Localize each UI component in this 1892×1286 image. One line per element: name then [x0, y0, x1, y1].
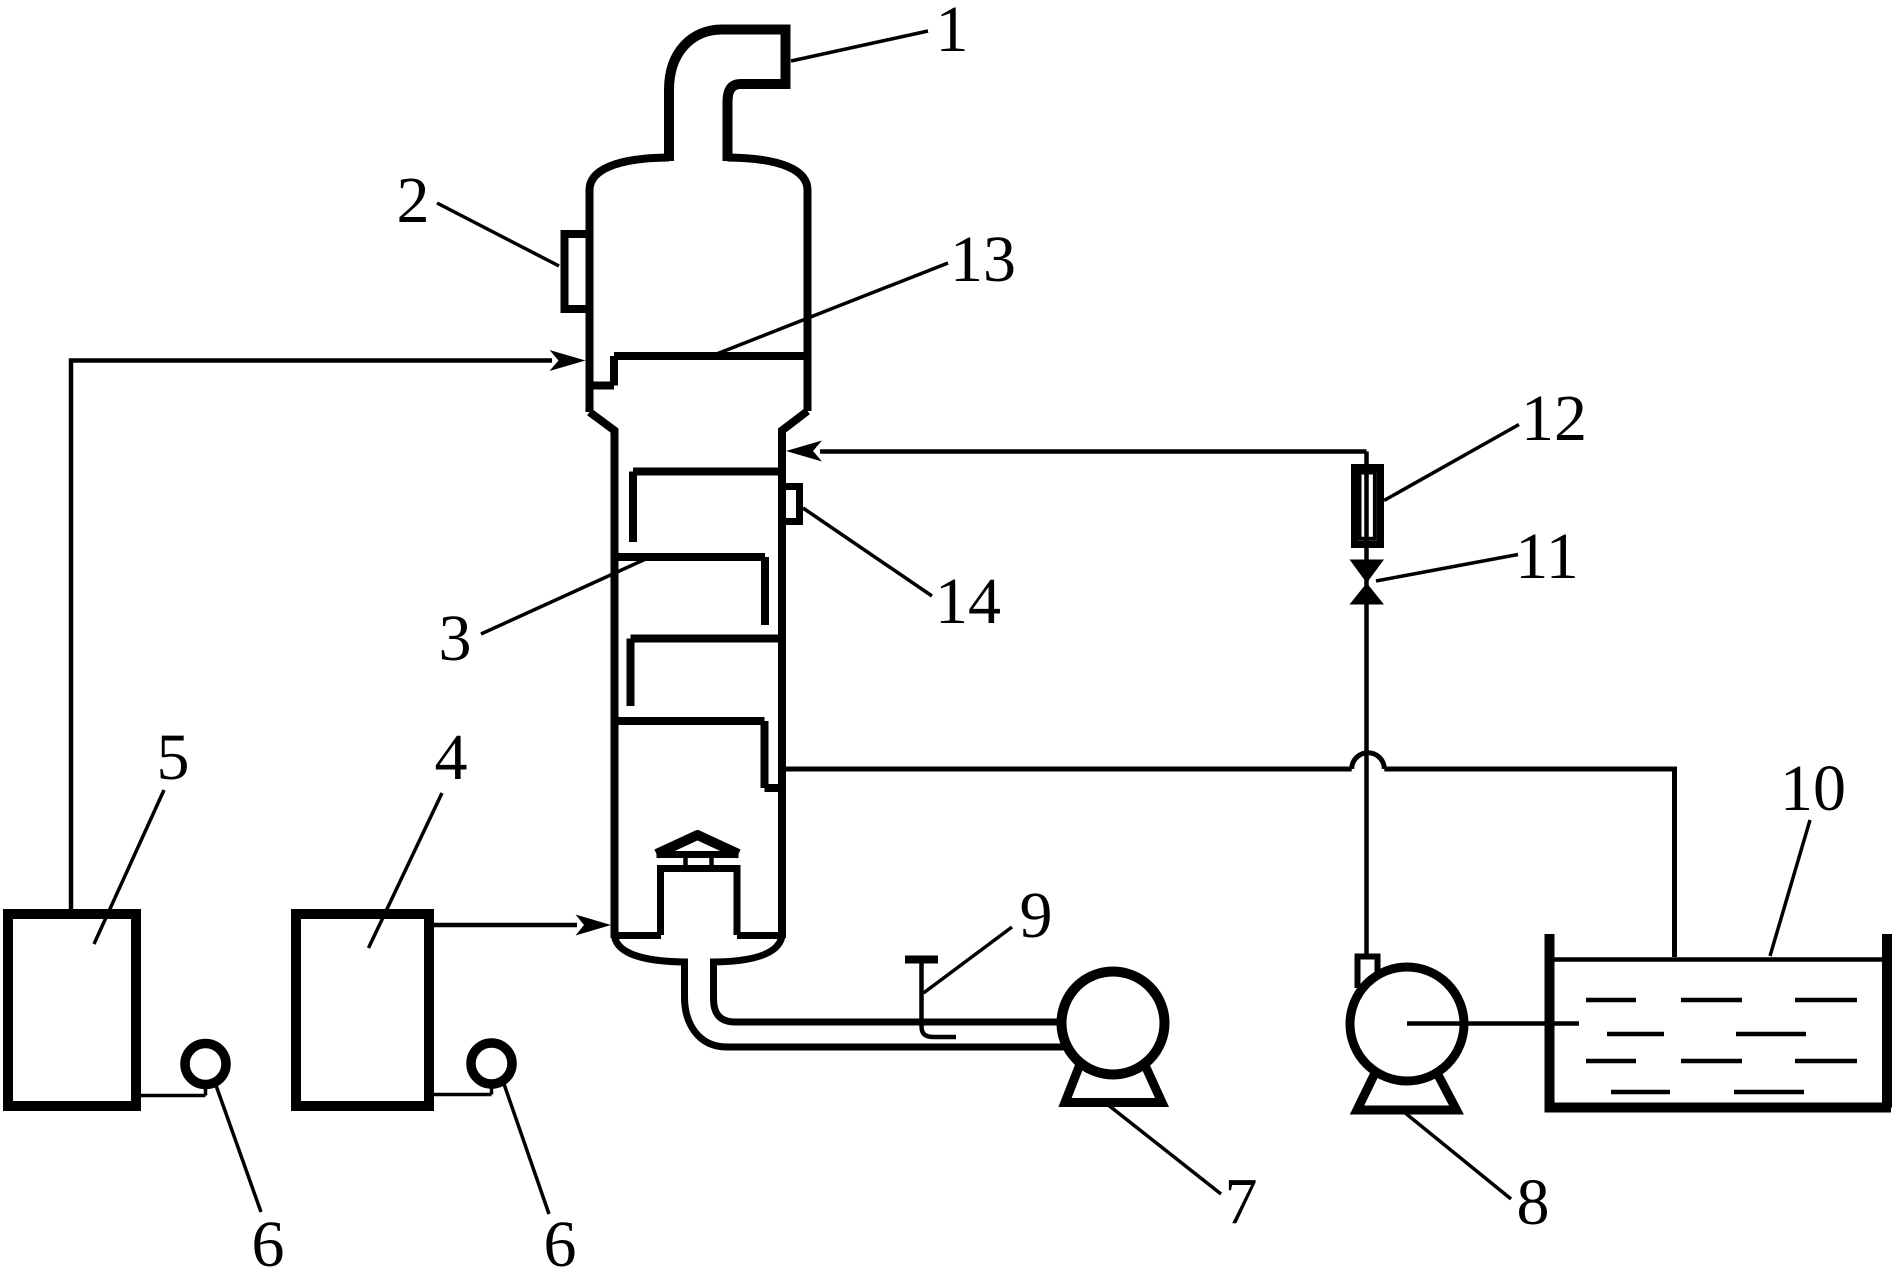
leader line 14: [803, 508, 932, 596]
pump 8 inlet stub: [1358, 957, 1378, 989]
hop (line crossing) over vertical line: [1352, 753, 1385, 769]
feed line from tank 4 to column bottom: [429, 923, 577, 928]
pump 8 base: [1357, 1071, 1457, 1110]
pump 8 casing: [1350, 967, 1464, 1081]
column bottom dish left and drain pipe bottom line: [615, 936, 1065, 1047]
leader line 5: [94, 790, 164, 944]
leader line 7: [1107, 1104, 1221, 1194]
sampling circle 6 of tank 4: [429, 1084, 492, 1095]
tank 10 rim / liquid surface: [1550, 957, 1888, 962]
svg-text:5: 5: [157, 721, 190, 794]
pump 7 base: [1065, 1063, 1162, 1103]
baffle tray 1: [633, 472, 782, 543]
bubble cap chimney legs: [686, 856, 712, 867]
svg-text:2: 2: [397, 164, 430, 237]
column bottom dish right and drain pipe top line: [714, 936, 1065, 1022]
tank 4: [296, 914, 429, 1106]
leader line 12: [1384, 425, 1519, 501]
leader line 11: [1376, 555, 1518, 582]
bubble cap brim: [657, 851, 739, 858]
svg-text:13: 13: [950, 223, 1016, 296]
bubble cap pedestal: [661, 869, 738, 936]
svg-text:8: 8: [1517, 1166, 1550, 1239]
baffle tray 3: [631, 639, 783, 707]
feed arrow into column bottom: [576, 915, 612, 936]
column dome right shoulder and upper right wall: [728, 158, 808, 412]
leader line 3: [481, 558, 649, 635]
pump 8 discharge line into tank 10: [1407, 1021, 1579, 1026]
distributor tray 13: [590, 356, 808, 386]
svg-text:6: 6: [252, 1208, 285, 1281]
vertical recycle line through rotameter and valve to pump 8: [1364, 452, 1369, 954]
thermometer 9 cap: [905, 956, 938, 964]
gas outlet pipe 1 (swan neck): [669, 30, 786, 162]
sampling circle 6 of tank 5: [136, 1085, 206, 1096]
leader line 8: [1404, 1112, 1511, 1199]
svg-text:9: 9: [1020, 879, 1053, 952]
leader line 10: [1770, 820, 1810, 956]
tank 10 liquid dashes: [1586, 998, 1857, 1003]
leader line 2: [437, 203, 559, 266]
taper right to narrow section and narrow right wall: [782, 411, 808, 938]
svg-text:3: 3: [439, 602, 472, 675]
leader line 6 (right): [504, 1084, 549, 1214]
rotameter 12 outer body: [1355, 468, 1381, 545]
svg-text:10: 10: [1780, 752, 1846, 825]
tank 5: [8, 914, 136, 1106]
recycle return line into column: [820, 449, 1367, 454]
bottom floor plate: [615, 932, 783, 939]
svg-text:11: 11: [1515, 520, 1579, 593]
svg-text:6: 6: [544, 1208, 577, 1281]
thermometer 9 stem and hook: [922, 963, 957, 1037]
nozzle 14 on right wall: [782, 487, 800, 522]
svg-text:14: 14: [935, 565, 1001, 638]
nozzle 2 on upper left wall: [565, 234, 590, 309]
baffle tray 2: [615, 557, 766, 625]
feed line from tank 5 to column top: [71, 361, 552, 917]
column upper shell left wall and dome left shoulder: [590, 158, 670, 413]
tank 10 left wall: [1545, 934, 1555, 1108]
baffle tray 4: [615, 721, 786, 788]
side outlet line from column to tank 10: [786, 767, 1352, 772]
tank 10 bottom: [1545, 1103, 1892, 1113]
leader line 6 (left): [216, 1084, 262, 1212]
svg-text:1: 1: [936, 0, 969, 66]
leader line 9: [924, 927, 1013, 993]
leader line 13: [714, 263, 948, 355]
feed arrow into upper column: [550, 350, 586, 371]
rotameter 12 inner tube: [1360, 473, 1375, 539]
svg-text:4: 4: [435, 721, 468, 794]
svg-text:12: 12: [1521, 382, 1587, 455]
leader line 1: [791, 31, 928, 61]
svg-text:7: 7: [1225, 1165, 1258, 1238]
taper left to narrow section and narrow left wall: [590, 412, 615, 938]
valve 11: [1350, 560, 1385, 584]
tank 10 right wall: [1882, 934, 1892, 1108]
leader line 4: [369, 793, 443, 948]
outlet line continues to tank 10: [1384, 769, 1674, 957]
return arrow into column: [786, 441, 822, 462]
pump 7 casing: [1062, 972, 1165, 1075]
bubble cap roof: [657, 835, 739, 854]
